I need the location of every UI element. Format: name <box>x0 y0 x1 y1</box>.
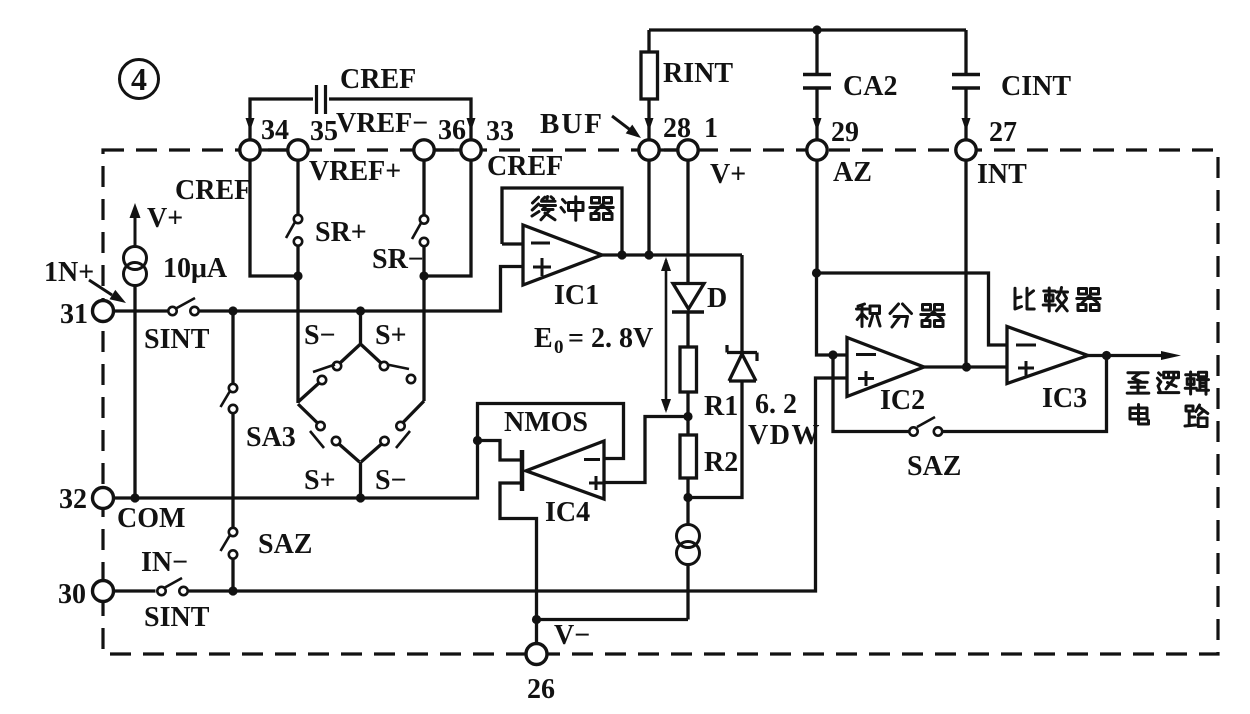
label 1N+ <box>44 257 94 288</box>
arrow into pin 34 <box>246 118 255 131</box>
arrow 1N+ to pin 31 <box>89 280 126 303</box>
svg-text:4: 4 <box>131 61 147 97</box>
wire SAZ to pin30 row <box>231 559 234 591</box>
label SINT bottom <box>144 602 210 633</box>
wire SR+ to bridge left <box>296 246 299 403</box>
svg-text:VREF−: VREF− <box>336 108 428 139</box>
svg-text:35: 35 <box>310 116 338 147</box>
junction IC1 fb <box>617 250 626 259</box>
label VREF- <box>336 108 428 139</box>
svg-text:S+: S+ <box>375 320 407 351</box>
svg-text:BUF: BUF <box>540 108 604 140</box>
svg-text:10μA: 10μA <box>163 253 228 284</box>
junction AZ branch <box>812 268 821 277</box>
op-amp IC3 <box>1007 327 1088 384</box>
wire IC3 output <box>1088 351 1181 360</box>
wire bridge bottom stem <box>339 444 382 498</box>
wire to SA3 <box>231 311 234 384</box>
svg-text:29: 29 <box>831 117 859 148</box>
switch SAZ left <box>221 528 238 559</box>
switch S+ upper <box>380 362 415 383</box>
label VREF+ <box>309 156 401 187</box>
label huanchongqi (buffer) <box>532 197 613 221</box>
switch SR- <box>412 215 428 246</box>
wire pin1 down <box>686 160 689 283</box>
wire pin34 down <box>250 160 294 276</box>
label R1 <box>704 391 738 422</box>
svg-text:32: 32 <box>59 484 87 515</box>
wire IC1 output <box>602 253 742 256</box>
nmos feedback box <box>478 404 624 459</box>
label AZ <box>833 157 872 188</box>
IC boundary dashed box <box>103 150 1218 654</box>
wire 10uA to COM <box>133 286 136 499</box>
label RINT <box>663 58 733 89</box>
wire D to R1 <box>686 312 689 347</box>
svg-text:SINT: SINT <box>144 602 210 633</box>
label IC2 <box>880 385 925 416</box>
svg-text:RINT: RINT <box>663 58 733 89</box>
switch S+ lower <box>310 422 340 448</box>
label CINT <box>1001 71 1071 102</box>
pin 36 <box>414 115 466 160</box>
svg-text:D: D <box>707 283 727 314</box>
svg-text:SAZ: SAZ <box>907 451 961 482</box>
wire IC2 out to IC3 <box>924 365 1007 368</box>
switch SR+ <box>286 215 302 246</box>
label bijiaoqi (comparator) <box>1015 288 1100 312</box>
svg-text:6. 2: 6. 2 <box>755 389 797 420</box>
wire AZ down <box>815 160 818 273</box>
diode D <box>672 284 704 313</box>
svg-text:S−: S− <box>304 320 336 351</box>
capacitor CINT <box>952 30 980 140</box>
label R2 <box>704 447 738 478</box>
wire bridge top stem <box>340 311 381 363</box>
wire bridge right corner <box>404 401 425 422</box>
svg-text:IN−: IN− <box>141 547 188 578</box>
svg-text:31: 31 <box>60 299 88 330</box>
junction INT node <box>962 362 971 371</box>
transistor NMOS gate bar <box>520 450 525 491</box>
svg-text:CA2: CA2 <box>843 71 897 102</box>
pin 30 <box>58 579 114 610</box>
svg-text:NMOS: NMOS <box>504 407 588 438</box>
arrow BUF to pin 28 <box>612 116 641 138</box>
label CREF right <box>487 151 563 182</box>
svg-text:CINT: CINT <box>1001 71 1071 102</box>
wire node to source <box>686 498 689 525</box>
label CREF top <box>340 64 416 95</box>
label IC1 <box>554 280 599 311</box>
label SR+ <box>315 217 367 248</box>
label V- <box>554 620 590 651</box>
label SAZ right <box>907 451 961 482</box>
svg-text:CREF: CREF <box>340 64 416 95</box>
label IC4 <box>545 497 590 528</box>
label 6.2 <box>755 389 797 420</box>
svg-text:1: 1 <box>704 113 718 144</box>
svg-text:S+: S+ <box>304 465 336 496</box>
label COM <box>117 503 185 534</box>
wire bridge left corner <box>298 383 319 423</box>
wire pin28 to BUF node <box>647 160 650 255</box>
svg-text:E: E <box>534 323 553 354</box>
pin 28 <box>639 113 691 160</box>
junction SAZ-pin30 row <box>228 586 237 595</box>
resistor R1 <box>680 347 697 392</box>
junction pin28 line <box>644 250 653 259</box>
label CA2 <box>843 71 897 102</box>
svg-text:26: 26 <box>527 674 555 705</box>
wire drain <box>478 441 521 461</box>
junction SR+ bottom <box>293 271 302 280</box>
switch S- upper <box>313 362 341 384</box>
switch S- lower <box>380 422 410 448</box>
svg-text:SR−: SR− <box>372 244 424 275</box>
op-amp IC1 <box>523 225 602 285</box>
svg-text:AZ: AZ <box>833 157 872 188</box>
svg-text:V−: V− <box>554 620 590 651</box>
label 10uA <box>163 253 228 284</box>
label to-logic line2 <box>1130 405 1208 427</box>
label D <box>707 283 727 314</box>
wire node to zener bottom <box>688 381 742 498</box>
wire pins 34-35 <box>250 148 298 151</box>
wire pin36 to SR- <box>422 160 425 216</box>
label IC3 <box>1042 383 1087 414</box>
junction 10uA-COM <box>130 493 139 502</box>
resistor R2 <box>680 435 697 478</box>
svg-text:VDW: VDW <box>748 420 821 451</box>
label INT <box>977 159 1027 190</box>
svg-text:V+: V+ <box>147 203 183 234</box>
pin 33 <box>461 116 514 160</box>
svg-text:V+: V+ <box>710 159 746 190</box>
junction bridge top <box>356 306 365 315</box>
junction IC2 minus fb <box>828 350 837 359</box>
junction R1-R2 <box>683 412 692 421</box>
label S- upper <box>304 320 336 351</box>
svg-text:INT: INT <box>977 159 1027 190</box>
pin 1 <box>678 113 718 160</box>
label V+ pin1 <box>710 159 746 190</box>
wire pins 28-1 <box>649 148 688 151</box>
label S+ upper <box>375 320 407 351</box>
junction NMOS drain node <box>473 436 482 445</box>
junction SR- bottom <box>419 271 428 280</box>
wire COM row <box>113 441 478 499</box>
wire pin33 down <box>428 160 471 276</box>
wire source <box>500 483 537 654</box>
wire pins 36-33 <box>424 148 471 151</box>
svg-text:R2: R2 <box>704 447 738 478</box>
junction zener bottom node <box>683 493 692 502</box>
svg-text:= 2. 8V: = 2. 8V <box>568 323 653 354</box>
current source 10uA <box>124 247 147 286</box>
svg-text:0: 0 <box>554 337 564 358</box>
pin 34 <box>240 115 289 160</box>
op-amp IC4 <box>526 441 604 499</box>
label E0=2.8V <box>534 323 653 358</box>
label SA3 <box>246 422 296 453</box>
wire IC4 plus sense <box>604 417 688 483</box>
svg-text:SAZ: SAZ <box>258 529 312 560</box>
svg-text:1N+: 1N+ <box>44 257 94 288</box>
label V+ left <box>147 203 183 234</box>
svg-text:IC2: IC2 <box>880 385 925 416</box>
wire pin31 to SINT <box>113 309 169 312</box>
current source lower <box>677 525 700 565</box>
svg-text:27: 27 <box>989 117 1017 148</box>
svg-text:SA3: SA3 <box>246 422 296 453</box>
arrow into pin 33 <box>467 118 476 131</box>
switch SINT bottom <box>157 578 187 595</box>
label jifenqi (integrator) <box>857 304 945 327</box>
label S+ lower <box>304 465 336 496</box>
svg-text:IC1: IC1 <box>554 280 599 311</box>
label S- lower <box>375 465 407 496</box>
wire IC3 feedback <box>833 355 1107 432</box>
svg-text:CREF: CREF <box>487 151 563 182</box>
svg-text:33: 33 <box>486 116 514 147</box>
svg-text:IC4: IC4 <box>545 497 590 528</box>
figure number 4 circled <box>120 60 159 99</box>
label SAZ left <box>258 529 312 560</box>
label SINT top <box>144 324 210 355</box>
op-amp IC1 feedback box <box>502 188 622 255</box>
capacitor CA2 <box>803 30 831 140</box>
op-amp IC2 <box>847 338 924 397</box>
pin 31 <box>60 299 114 330</box>
junction Vminus <box>532 615 541 624</box>
svg-text:SR+: SR+ <box>315 217 367 248</box>
svg-text:36: 36 <box>438 115 466 146</box>
label NMOS <box>504 407 588 438</box>
junction IC3 fb <box>1102 351 1111 360</box>
pin 27 <box>956 117 1017 160</box>
pin 35 <box>288 116 338 160</box>
wire IC1 minus input <box>502 242 523 245</box>
label to-logic line1 <box>1127 372 1208 394</box>
zener VDW <box>727 345 757 381</box>
junction bridge bottom <box>356 493 365 502</box>
svg-text:VREF+: VREF+ <box>309 156 401 187</box>
pin 32 <box>59 484 114 515</box>
svg-text:COM: COM <box>117 503 185 534</box>
junction SA3 branch <box>228 306 237 315</box>
wire R1 to R2 <box>686 392 689 435</box>
label IN- bottom <box>141 547 188 578</box>
pin 26 <box>526 644 555 706</box>
arrow V+ up <box>130 203 141 246</box>
svg-text:R1: R1 <box>704 391 738 422</box>
pin 29 <box>807 117 859 160</box>
label CREF left <box>175 175 251 206</box>
junction top rail CA2 <box>812 25 821 34</box>
switch SA3 <box>221 384 238 413</box>
wire top junction rail <box>649 28 966 31</box>
wire pin35 to SR+ <box>296 160 299 215</box>
switch SAZ right <box>909 417 942 436</box>
resistor RINT <box>641 30 658 140</box>
wire SINT to IC1+ <box>198 267 523 312</box>
svg-text:IC3: IC3 <box>1042 383 1087 414</box>
wire CREF cap left <box>250 99 313 139</box>
switch SINT top <box>168 298 198 315</box>
measure arrow E0 <box>661 257 671 413</box>
label SR- <box>372 244 424 275</box>
wire SA3 to SAZ <box>231 414 234 529</box>
label VDW <box>748 420 821 451</box>
wire AZ to IC2 minus <box>817 273 848 355</box>
wire CREF cap right <box>329 99 471 139</box>
wire INT down <box>964 160 967 367</box>
wire pin30 row <box>113 378 847 591</box>
wire zener top <box>740 255 743 353</box>
wire SR- to bridge right <box>422 246 425 401</box>
wire R2 to node <box>686 478 689 498</box>
svg-text:S−: S− <box>375 465 407 496</box>
svg-text:SINT: SINT <box>144 324 210 355</box>
svg-text:CREF: CREF <box>175 175 251 206</box>
svg-text:34: 34 <box>261 115 289 146</box>
svg-text:30: 30 <box>58 579 86 610</box>
wire AZ to IC3 minus <box>817 273 1008 345</box>
label BUF <box>540 108 604 140</box>
wire Vminus rail <box>537 618 689 621</box>
capacitor CREF plates <box>317 85 326 114</box>
wire source to Vminus rail <box>686 565 689 620</box>
